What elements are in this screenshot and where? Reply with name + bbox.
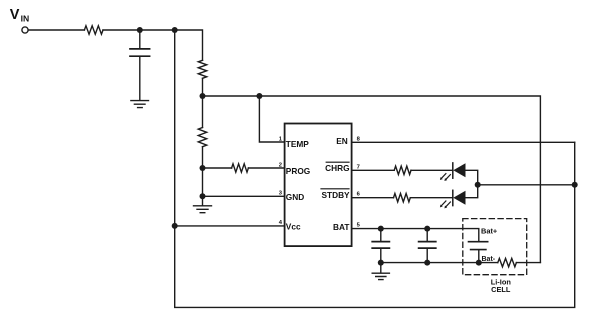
svg-text:GND: GND bbox=[286, 192, 304, 202]
svg-text:8: 8 bbox=[357, 136, 361, 142]
svg-text:V: V bbox=[10, 7, 20, 23]
svg-text:IN: IN bbox=[21, 13, 30, 23]
svg-text:Bat-: Bat- bbox=[482, 256, 496, 263]
svg-text:5: 5 bbox=[357, 223, 361, 229]
svg-text:CHRG: CHRG bbox=[325, 163, 349, 173]
svg-text:STDBY: STDBY bbox=[321, 190, 350, 200]
svg-text:2: 2 bbox=[279, 162, 282, 168]
svg-text:7: 7 bbox=[357, 164, 360, 170]
svg-text:Bat+: Bat+ bbox=[481, 226, 498, 235]
svg-text:PROG: PROG bbox=[286, 166, 310, 176]
svg-text:EN: EN bbox=[336, 136, 348, 146]
svg-text:BAT: BAT bbox=[333, 222, 349, 232]
svg-text:CELL: CELL bbox=[491, 285, 511, 294]
svg-text:6: 6 bbox=[357, 192, 361, 198]
svg-text:Vcc: Vcc bbox=[286, 221, 301, 231]
svg-text:TEMP: TEMP bbox=[286, 139, 310, 149]
